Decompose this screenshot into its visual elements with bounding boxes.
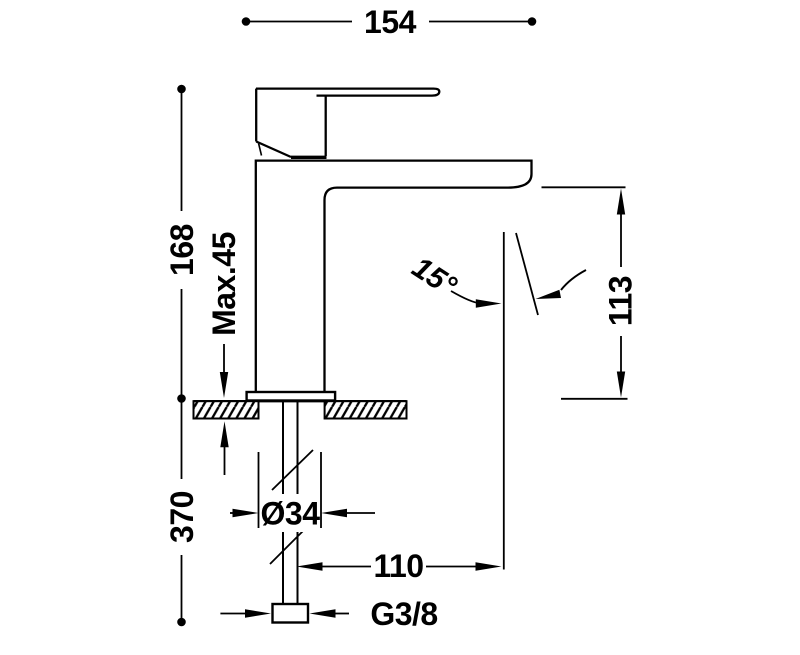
svg-text:15°: 15° bbox=[406, 251, 463, 304]
faucet body and spout outline bbox=[256, 161, 532, 392]
svg-text:113: 113 bbox=[603, 276, 639, 326]
svg-text:110: 110 bbox=[373, 548, 423, 584]
countertop top line bbox=[194, 400, 407, 402]
countertop right hatched section bbox=[325, 401, 407, 418]
svg-text:Max.45: Max.45 bbox=[206, 232, 242, 336]
svg-text:370: 370 bbox=[164, 491, 200, 543]
tilted handle line 15deg bbox=[516, 233, 538, 315]
cartridge neck front edge bbox=[325, 96, 327, 156]
countertop left hatched section bbox=[194, 401, 259, 418]
Max.45 up arrow below counter bbox=[224, 446, 226, 475]
pipe break slash upper bbox=[272, 450, 313, 490]
svg-text:G3/8: G3/8 bbox=[370, 596, 437, 632]
svg-text:168: 168 bbox=[164, 224, 200, 276]
pipe break slash lower bbox=[270, 526, 308, 564]
handle housing left edge bbox=[255, 89, 257, 142]
handle base wedge line bbox=[259, 144, 262, 156]
svg-text:154: 154 bbox=[364, 4, 417, 40]
G3/8 right arrow bbox=[310, 609, 336, 617]
arrow to tilted line bbox=[561, 270, 586, 290]
G3/8 fitting box bbox=[273, 604, 309, 623]
G3/8 left arrow bbox=[220, 613, 247, 615]
faucet handle lever bbox=[256, 89, 439, 96]
dimension Ø34 bbox=[258, 452, 260, 528]
dimension 113 bbox=[542, 186, 626, 188]
svg-text:Ø34: Ø34 bbox=[261, 496, 321, 532]
supply pipe bbox=[282, 401, 284, 605]
15deg arrow to centerline bbox=[451, 291, 480, 303]
thick gap line under handle bbox=[291, 156, 327, 159]
dimension 168 / 370 left vertical line bbox=[181, 89, 183, 622]
handle housing chamfer bbox=[256, 142, 291, 158]
dimension 110 bbox=[297, 562, 323, 570]
dimension 154 top bbox=[246, 21, 532, 23]
spout stream centerline bbox=[503, 232, 505, 570]
Max.45 down arrow bbox=[223, 344, 225, 374]
base flange bbox=[247, 392, 336, 401]
